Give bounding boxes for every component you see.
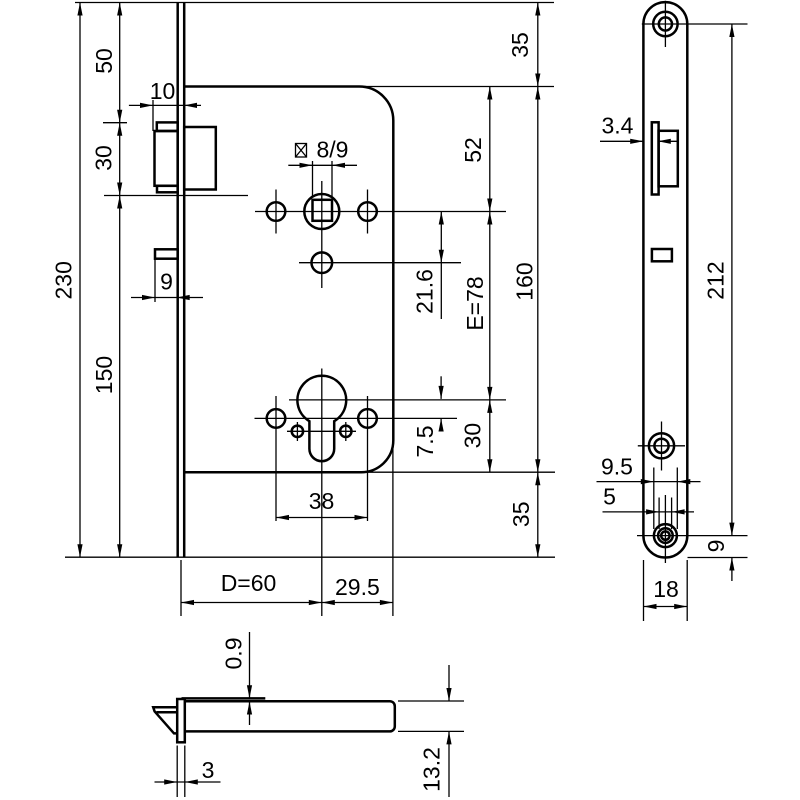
dimension 29.5 xyxy=(322,574,393,605)
svg-text:7.5: 7.5 xyxy=(412,426,438,458)
small hole left of cylinder xyxy=(292,426,303,437)
svg-text:230: 230 xyxy=(51,261,77,299)
svg-text:D=60: D=60 xyxy=(221,570,277,596)
svg-text:50: 50 xyxy=(91,48,117,74)
dimension 18 xyxy=(644,560,688,621)
dimension 0.9 xyxy=(221,632,253,725)
square spindle hole 8/9 xyxy=(313,200,333,221)
dimension 30 left xyxy=(90,123,122,196)
latch bolt body (inside case) xyxy=(184,127,216,190)
latch bolt side view body xyxy=(659,131,678,187)
extension line faceplate bottom tangent xyxy=(688,557,748,559)
latch bolt bottom lip xyxy=(157,186,178,193)
centerline cylinder horizontal xyxy=(289,399,506,401)
dimension 7.5 xyxy=(412,376,444,457)
centerline vertical left hole xyxy=(275,190,277,234)
centerline vertical follower xyxy=(321,181,323,288)
latch bevel wedge xyxy=(153,707,177,733)
svg-text:9: 9 xyxy=(160,269,173,295)
extension line faceplate bottom xyxy=(180,560,182,616)
spindle follower circle xyxy=(304,194,339,229)
dimension 9.5 xyxy=(597,454,701,530)
svg-text:35: 35 xyxy=(508,502,534,528)
dimension 3 xyxy=(155,746,221,798)
top screw hole centerlines xyxy=(642,1,748,47)
svg-text:18: 18 xyxy=(653,576,679,602)
latch bolt head (protruding) xyxy=(155,131,178,186)
fixing hole right of follower xyxy=(358,202,377,221)
latch bar (bottom view) xyxy=(185,701,395,731)
extension line latch bottom xyxy=(104,195,248,197)
spring sheet 0.9 xyxy=(182,697,266,700)
middle screw hole xyxy=(649,433,674,458)
dimension 9 latch xyxy=(131,269,203,301)
guide pin tab xyxy=(155,249,178,258)
faceplate cross-section xyxy=(177,699,185,742)
extension line case bottom right xyxy=(363,471,555,473)
top screw hole xyxy=(653,12,677,36)
centerline lower hole row xyxy=(299,262,461,264)
svg-text:10: 10 xyxy=(150,78,176,104)
svg-text:3: 3 xyxy=(202,757,215,783)
svg-text:38: 38 xyxy=(309,488,335,514)
dimension 8/9 square xyxy=(288,137,357,197)
svg-text:52: 52 xyxy=(460,137,486,163)
svg-text:9: 9 xyxy=(703,540,729,553)
centerline through follower row xyxy=(255,211,506,213)
svg-text:29.5: 29.5 xyxy=(335,574,380,600)
svg-text:8/9: 8/9 xyxy=(317,137,349,163)
bottom screw hole centerlines xyxy=(637,495,748,563)
dimension 160 xyxy=(511,87,540,473)
dimension 21.6 xyxy=(412,212,444,320)
small hole right of cylinder xyxy=(340,426,351,437)
dimension 30 right xyxy=(460,400,493,472)
latch bolt side view flange xyxy=(652,122,659,194)
bottom reference line (front view) xyxy=(65,556,555,558)
euro profile cylinder hole xyxy=(297,376,346,461)
dimension 3.4 xyxy=(600,112,678,144)
centerline cylinder vertical xyxy=(321,369,323,617)
dimension E=78 xyxy=(462,212,492,400)
extension line latch front xyxy=(152,100,154,131)
dimension 35 top xyxy=(507,3,540,558)
latch bolt top lip xyxy=(157,122,178,131)
svg-text:E=78: E=78 xyxy=(462,276,488,330)
dimension 230 xyxy=(51,3,83,558)
hole below follower xyxy=(312,252,333,273)
extension line case top right xyxy=(363,86,554,88)
bottom screw hole xyxy=(654,524,677,547)
svg-text:9.5: 9.5 xyxy=(601,454,633,480)
extension line guide pin xyxy=(154,259,156,302)
svg-text:30: 30 xyxy=(90,145,116,171)
faceplate (front view, edge-on double line) xyxy=(178,3,185,558)
extension line left cylinder hole xyxy=(275,396,277,521)
top reference line (front view) xyxy=(75,2,554,4)
lock case outline xyxy=(184,87,393,473)
cylinder fixing hole left xyxy=(267,409,286,428)
svg-text:212: 212 xyxy=(703,261,729,299)
dimension 10 xyxy=(129,78,201,108)
faceplate front view (stadium outline) xyxy=(643,2,687,557)
extension line right cylinder hole xyxy=(367,396,369,521)
svg-text:21.6: 21.6 xyxy=(412,269,438,314)
svg-text:5: 5 xyxy=(603,484,616,510)
fixing hole left of follower xyxy=(267,202,286,221)
svg-text:30: 30 xyxy=(460,423,486,449)
svg-text:35: 35 xyxy=(507,32,533,58)
dimension 5 xyxy=(603,484,695,530)
dimension D=60 xyxy=(181,570,393,605)
centerline small holes xyxy=(287,422,356,441)
centerline cylinder holes row xyxy=(255,417,458,419)
middle screw hole centerlines xyxy=(638,422,685,471)
dimension 52 xyxy=(460,87,492,473)
dimension 150 xyxy=(91,196,123,558)
dimension 50 xyxy=(91,3,122,558)
dimension 9 side xyxy=(703,540,735,581)
svg-text:150: 150 xyxy=(91,356,117,394)
centerline vertical right hole xyxy=(367,190,369,234)
dimension 38 xyxy=(276,488,368,520)
extension line case right edge xyxy=(392,441,394,617)
svg-text:3.4: 3.4 xyxy=(602,112,634,138)
dimension 13.2 xyxy=(398,665,464,797)
svg-text:13.2: 13.2 xyxy=(419,747,445,792)
extension line latch top xyxy=(103,122,127,124)
dimension 212 xyxy=(703,24,735,536)
svg-text:160: 160 xyxy=(511,262,537,300)
cylinder fixing hole right xyxy=(358,409,377,428)
svg-text:0.9: 0.9 xyxy=(221,638,247,670)
dimension 35 bottom xyxy=(508,472,540,557)
guide pin slot xyxy=(652,249,672,261)
